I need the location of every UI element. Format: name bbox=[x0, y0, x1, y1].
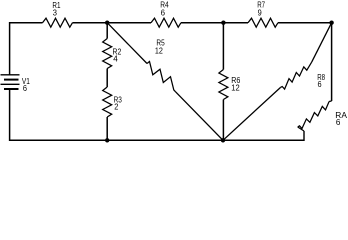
junction node E bbox=[221, 138, 225, 142]
resistor R1 bbox=[43, 18, 73, 27]
svg-text:3: 3 bbox=[53, 8, 57, 18]
wire bottom (node E to RA stub) bbox=[223, 139, 304, 141]
resistor RA bbox=[298, 102, 329, 129]
resistor R6 bbox=[219, 70, 228, 100]
wire node C down right side bbox=[331, 22, 333, 101]
resistor R7 bbox=[248, 18, 278, 27]
wire node A to R4 bbox=[107, 22, 151, 24]
wire R2 to R3 bbox=[106, 69, 108, 88]
svg-text:9: 9 bbox=[258, 8, 262, 18]
wire R1 to node A bbox=[73, 22, 108, 24]
wire R6 to node E bbox=[222, 100, 224, 141]
svg-text:6: 6 bbox=[23, 83, 27, 93]
junction node A bbox=[105, 21, 109, 25]
resistor R2 bbox=[103, 39, 112, 69]
wire R8 to node E bbox=[223, 88, 280, 141]
svg-text:6: 6 bbox=[336, 117, 341, 127]
wire RA stub down bbox=[303, 131, 305, 141]
resistor R3 bbox=[103, 87, 112, 117]
wire R5 to node E bbox=[176, 92, 223, 140]
wire right to RA bbox=[329, 100, 332, 103]
junction node B bbox=[221, 21, 225, 25]
svg-text:12: 12 bbox=[155, 46, 163, 56]
resistor R8 bbox=[280, 62, 311, 89]
wire node C to R8 bbox=[312, 23, 332, 62]
wire RA to bottom stub bbox=[298, 127, 304, 131]
wire top-left segment (battery + to R1) bbox=[10, 22, 43, 24]
junction node D bbox=[105, 138, 109, 142]
wire R7 to node C bbox=[278, 22, 332, 24]
battery V1 bbox=[1, 75, 20, 89]
wire node A to R5 bbox=[107, 23, 147, 64]
resistor R4 bbox=[151, 18, 181, 27]
wire left vertical (V1 bottom lead) bbox=[9, 89, 11, 141]
junction node C bbox=[329, 21, 333, 25]
svg-text:12: 12 bbox=[231, 83, 240, 93]
svg-text:2: 2 bbox=[114, 102, 118, 112]
resistor R5 bbox=[147, 62, 176, 92]
wire R3 to node D bbox=[106, 117, 108, 140]
wire bottom (left to node D) bbox=[10, 139, 108, 141]
svg-text:6: 6 bbox=[318, 79, 322, 89]
wire left vertical (V1 top lead) bbox=[9, 22, 11, 75]
wire node B to R7 bbox=[223, 22, 248, 24]
svg-text:4: 4 bbox=[113, 53, 118, 63]
svg-text:6: 6 bbox=[161, 8, 166, 18]
wire node B to R6 bbox=[222, 23, 224, 70]
wire node A to R2 bbox=[106, 23, 108, 39]
wire bottom (node D to node E) bbox=[107, 139, 223, 141]
wire R4 to node B bbox=[181, 22, 223, 24]
